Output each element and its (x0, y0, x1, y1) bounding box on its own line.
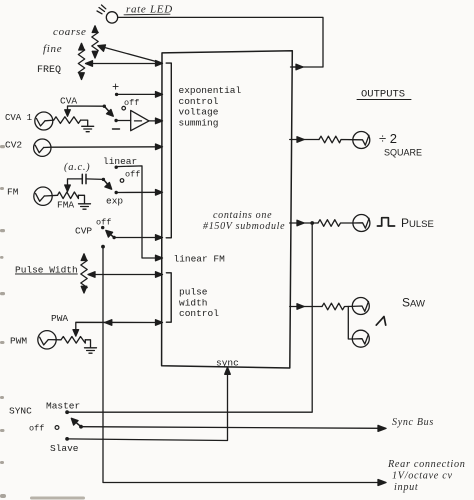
svg-text:Master: Master (46, 401, 80, 412)
svg-text:(a.c.): (a.c.) (64, 162, 90, 173)
ground (85, 348, 97, 353)
arrowhead linear FM into box (156, 255, 163, 261)
switch S1 off position (122, 98, 139, 110)
wire pulse output (290, 222, 318, 224)
wire PWA pot to ground (85, 340, 90, 348)
svg-text:Slave: Slave (50, 443, 79, 454)
jack square out (353, 132, 370, 149)
svg-text:+: + (112, 81, 119, 95)
jack saw out upper (352, 298, 369, 315)
potentiometer FMA (58, 179, 83, 199)
svg-text:FM: FM (7, 187, 19, 198)
switch S1 CVA polarity (103, 105, 114, 117)
label contains one #150V submodule (203, 210, 285, 232)
svg-text:voltage: voltage (179, 107, 219, 118)
switch S2 FM mode (102, 178, 112, 190)
svg-text:CV2: CV2 (5, 140, 22, 151)
LED D1 rate (97, 5, 118, 23)
arrowhead exp into box (156, 190, 163, 196)
node exp position (106, 191, 123, 207)
arrowhead PWA into box (156, 320, 163, 326)
ground (79, 204, 91, 209)
wire op-amp out to box (149, 120, 162, 122)
resistor square (319, 136, 353, 143)
svg-text:P: P (401, 216, 409, 230)
wire CVP to box (114, 237, 161, 239)
wire sync bus (81, 427, 383, 429)
svg-text:off: off (96, 218, 111, 228)
wire CV2 to box (44, 146, 162, 149)
svg-text:off: off (124, 98, 139, 108)
wire minus to op-amp (116, 120, 131, 122)
svg-text:SYNC: SYNC (9, 406, 32, 417)
jack CVA 1 (35, 112, 53, 130)
label rate LED (124, 4, 173, 16)
label rear connection (387, 459, 466, 493)
label SAW (402, 296, 425, 310)
wire CVA pot to ground (81, 120, 88, 126)
svg-text:1V/octave cv: 1V/octave cv (392, 471, 453, 482)
symbol pulse wave (377, 218, 394, 226)
svg-text:Pulse Width: Pulse Width (15, 265, 78, 276)
svg-text:linear FM: linear FM (174, 254, 226, 265)
arrowhead rear cv (378, 480, 386, 486)
svg-text:Sync Bus: Sync Bus (392, 417, 434, 428)
svg-text:contains one: contains one (213, 210, 272, 221)
wire jack to FMA pot (44, 194, 57, 197)
arrowhead amp out into box (156, 118, 163, 124)
resistor pulse (318, 220, 353, 227)
arrowhead square output (297, 137, 304, 143)
arrowhead at pulse width pot (88, 272, 95, 278)
switch S4 sync select (71, 418, 83, 428)
svg-text:Rear connection: Rear connection (387, 459, 466, 470)
symbol saw wave (376, 317, 385, 326)
wire coarse wiper (101, 47, 162, 64)
potentiometer fine (78, 43, 84, 79)
wire jack to PWA pot (48, 339, 61, 341)
op-amp U1 inverter (131, 110, 149, 130)
potentiometer PWA pot (61, 337, 85, 344)
switch S4 off position (29, 424, 59, 434)
resistor saw (322, 303, 352, 310)
arrowhead sync bus (378, 425, 386, 431)
arrowhead plus into box (156, 92, 163, 98)
svg-text:OUTPUTS: OUTPUTS (361, 89, 405, 101)
svg-text:÷ 2: ÷ 2 (379, 131, 397, 146)
wire pulse width to box (91, 274, 162, 276)
jack saw out lower (352, 330, 369, 347)
svg-text:FMA: FMA (57, 200, 74, 211)
wire exp to box (116, 191, 161, 193)
node linear position (103, 156, 137, 169)
arrowhead at coarse pot (98, 45, 106, 51)
svg-text:exponential: exponential (179, 85, 242, 96)
svg-text:FREQ: FREQ (37, 65, 61, 76)
jack FM (34, 187, 52, 205)
svg-text:coarse: coarse (53, 26, 87, 38)
label OUTPUTS (357, 89, 411, 101)
wire LED feed loop (118, 17, 323, 67)
node plus input (112, 81, 119, 97)
bracket exponential inputs (166, 63, 171, 238)
svg-text:pulse: pulse (179, 287, 208, 298)
arrowhead saw output (297, 304, 304, 310)
svg-text:off: off (125, 170, 140, 180)
svg-text:control: control (179, 96, 219, 107)
potentiometer Pulse Width (81, 254, 87, 293)
wire top output to LED (292, 66, 300, 68)
capacitor C1 a.c. coupling (82, 174, 103, 183)
label exponential control voltage summing (179, 85, 242, 128)
svg-text:summing: summing (179, 117, 219, 128)
switch S2 off position (120, 170, 140, 183)
svg-text:rate LED: rate LED (126, 4, 173, 16)
wire FMA pot to ground (78, 195, 84, 204)
ground (82, 126, 94, 131)
wire square output (290, 139, 319, 141)
wire rear cv input run (103, 247, 383, 483)
switch S3 CVP (75, 218, 116, 240)
svg-text:AW: AW (410, 299, 425, 310)
arrowhead top output (296, 64, 303, 70)
arrowhead PWA wiper (73, 330, 79, 337)
node minus input (113, 119, 120, 129)
wire plus to box (117, 93, 162, 95)
potentiometer coarse (92, 26, 98, 58)
wire slave to sync input (67, 370, 227, 441)
svg-text:CVP: CVP (75, 226, 92, 237)
arrowhead pulse output (297, 220, 304, 226)
submodule box U2 (162, 51, 293, 368)
svg-text:exp: exp (106, 196, 123, 207)
label divide by 2 (379, 131, 397, 146)
arrowhead pulse width into box (156, 272, 163, 278)
arrowhead CVP into box (156, 235, 163, 241)
node master (65, 410, 69, 414)
svg-text:CVA 1: CVA 1 (5, 113, 32, 123)
svg-text:control: control (179, 308, 219, 319)
svg-text:SQUARE: SQUARE (384, 148, 422, 158)
label PULSE (401, 216, 434, 230)
jack CV2 (34, 139, 51, 156)
arrowhead FREQ into box (156, 61, 163, 67)
svg-text:linear: linear (103, 156, 137, 167)
svg-text:width: width (179, 297, 208, 308)
label pulse width control (179, 287, 219, 320)
arrowhead CV2 into box (156, 144, 163, 150)
bracket pulse width inputs (166, 273, 171, 322)
arrowhead at fine pot (86, 61, 93, 67)
scan marks left edge (0, 145, 85, 500)
wire jack to CVA pot (45, 119, 54, 122)
potentiometer CVA (54, 106, 105, 123)
svg-text:S: S (402, 296, 410, 310)
svg-text:PWM: PWM (10, 336, 27, 347)
node pulse junction (310, 221, 314, 225)
wire saw output (290, 306, 322, 308)
wire saw branch (348, 307, 352, 340)
svg-text:off: off (29, 424, 44, 434)
svg-text:PWA: PWA (51, 313, 68, 324)
node rear cv junction (101, 245, 105, 249)
svg-text:fine: fine (43, 43, 62, 55)
wire FREQ input (89, 63, 162, 65)
node slave (65, 437, 69, 441)
wire master sync from pulse junction (67, 223, 312, 412)
jack PWM (38, 331, 56, 349)
svg-text:#150V submodule: #150V submodule (203, 221, 285, 232)
svg-text:ULSE: ULSE (409, 219, 434, 230)
wire linear to linear FM input (116, 166, 162, 258)
wire PWA to box (76, 322, 162, 335)
arrowhead sync into box (225, 367, 231, 374)
svg-text:input: input (394, 482, 419, 493)
arrowhead PWA mid (105, 320, 112, 326)
jack pulse out (353, 215, 370, 232)
svg-text:CVA: CVA (60, 96, 77, 107)
